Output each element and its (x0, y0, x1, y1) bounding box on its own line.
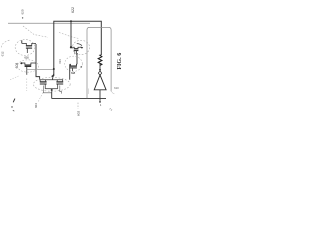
label 600 (bottom-left) (13, 99, 15, 103)
wire gate tie of pair (45, 88, 58, 90)
label tiny bottom right (110, 109, 113, 111)
wire top bus of bottom pair (40, 79, 63, 81)
svg-text:612: 612 (1, 51, 5, 56)
wire stub near box bottom-left (87, 89, 89, 95)
ellipse around M3 (18, 60, 39, 72)
wire M1 drain down to bottom pair (36, 44, 40, 80)
label tick below dot (99, 104, 102, 106)
wire stub below M2 (74, 51, 76, 54)
svg-text:624: 624 (59, 59, 62, 64)
transistor M6 (bottom pair right) (56, 80, 63, 94)
wire stub below rail (99, 99, 101, 101)
resistor R1 (98, 55, 102, 66)
box output branch (87, 27, 111, 98)
wire dashed leader x78 (77, 103, 79, 109)
svg-text:616: 616 (24, 55, 29, 59)
wire M2 down to M4 (76, 54, 78, 65)
wire leader dashed to 608 (10, 76, 19, 80)
wire leader dashed P1 (23, 26, 48, 37)
wire dashed mini (11, 106, 12, 107)
transistor M1 (PMOS left) (22, 40, 36, 53)
transistor M5 (bottom pair left) (40, 80, 52, 93)
node VDD rail (8, 22, 90, 24)
wire curve leader box corner (111, 91, 114, 94)
node dot right of M4 (81, 66, 83, 68)
svg-text:610: 610 (114, 86, 119, 90)
node junction dot B (70, 46, 72, 48)
node dot pair (51, 89, 53, 91)
wire M4 source down (69, 64, 71, 79)
node dot under label 620 (22, 17, 23, 18)
ellipse around M1 (15, 40, 35, 56)
transistor M2 (PMOS right) (71, 47, 81, 53)
wire gate interconnect NMOS (27, 68, 54, 70)
svg-text:FIG. 6: FIG. 6 (117, 53, 123, 70)
node dot on bus (53, 68, 55, 70)
wire amp to rail (99, 90, 101, 99)
label tick bottom-left (13, 110, 15, 111)
amplifier A1 triangle (94, 75, 106, 90)
wire bottom rail (52, 98, 106, 100)
ellipse around M2 (72, 40, 89, 54)
ellipse around pair (33, 77, 70, 91)
svg-text:620: 620 (20, 9, 24, 14)
wire leader dashed P2 (59, 33, 79, 39)
node gate dot M2 (76, 53, 78, 55)
node dot below rail (99, 101, 101, 103)
node dot M3 left (20, 62, 22, 64)
wire dashed leader to 604 (26, 79, 28, 92)
wire dashed leader to label 604b (38, 93, 43, 103)
wire pair down to rail (51, 89, 53, 99)
wire from rail to PMOS M2 (70, 21, 72, 47)
wire current arrow (77, 44, 82, 46)
wire top dark bus (54, 21, 102, 76)
svg-text:622: 622 (71, 7, 75, 13)
node junction dot A (70, 20, 72, 22)
wire resistor to amp (99, 63, 101, 70)
svg-text:602: 602 (76, 111, 80, 116)
wire centre tail down (53, 74, 54, 80)
node dot above amp (99, 69, 101, 71)
ellipse around M4 (65, 56, 83, 71)
transistor M4 (NMOS right branch) (70, 64, 77, 71)
node dot centre tail (52, 75, 54, 77)
wire dashed arc to label 612 (1, 40, 9, 47)
transistor M3 (NMOS left) (21, 63, 36, 75)
bubble of amplifier (98, 71, 101, 75)
svg-text:604: 604 (34, 103, 38, 108)
